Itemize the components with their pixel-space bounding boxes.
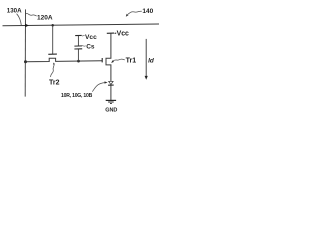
- label leader Tr2: [51, 63, 55, 77]
- svg-text:Cs: Cs: [86, 44, 95, 51]
- label leader Vcc1: [82, 34, 85, 37]
- wire scan line 120A horizontal: [3, 24, 160, 26]
- label leader 120A: [26, 13, 37, 16]
- svg-text:Vcc: Vcc: [117, 31, 129, 38]
- svg-text:Tr2: Tr2: [49, 80, 60, 87]
- node junction dot data/wire: [24, 60, 27, 63]
- wire data line vertical: [24, 9, 26, 96]
- label leader Tr1: [113, 59, 125, 61]
- wire diode to ground: [110, 85, 112, 100]
- label leader 10R10G10B: [92, 83, 105, 92]
- svg-text:120A: 120A: [37, 14, 53, 21]
- wire capacitor branch: [77, 36, 79, 46]
- node junction dot cap/wire: [77, 60, 80, 63]
- label leader Cs: [82, 44, 85, 47]
- power Vcc bar (Tr1 drain): [107, 32, 114, 34]
- ground symbol: [106, 99, 116, 101]
- transistor Tr1 channel path: [106, 33, 111, 81]
- svg-text:Tr1: Tr1: [126, 58, 137, 65]
- transistor Tr1 gate bar: [101, 58, 103, 62]
- transistor Tr2 channel and node wire: [26, 58, 103, 62]
- capacitor Cs plates: [74, 45, 82, 47]
- svg-text:140: 140: [142, 8, 153, 15]
- svg-text:Vcc: Vcc: [85, 34, 97, 41]
- label leader Vcc2 arrow: [115, 32, 117, 34]
- node junction dot scan/gate: [51, 24, 54, 27]
- label leader 140: [128, 11, 142, 14]
- current arrow Id: [145, 39, 147, 77]
- svg-text:GND: GND: [105, 108, 117, 114]
- label leader 130A: [17, 14, 22, 26]
- svg-text:10R, 10G, 10B: 10R, 10G, 10B: [61, 93, 93, 99]
- diode OLED triangle: [109, 81, 113, 84]
- node arrow at data/scan crossing: [25, 24, 29, 28]
- svg-text:130A: 130A: [7, 8, 22, 15]
- wire gate line of Tr2: [52, 25, 54, 54]
- transistor Tr2 gate bar: [48, 53, 57, 55]
- diode cathode bar: [108, 84, 114, 86]
- power Vcc bar (capacitor): [75, 34, 82, 36]
